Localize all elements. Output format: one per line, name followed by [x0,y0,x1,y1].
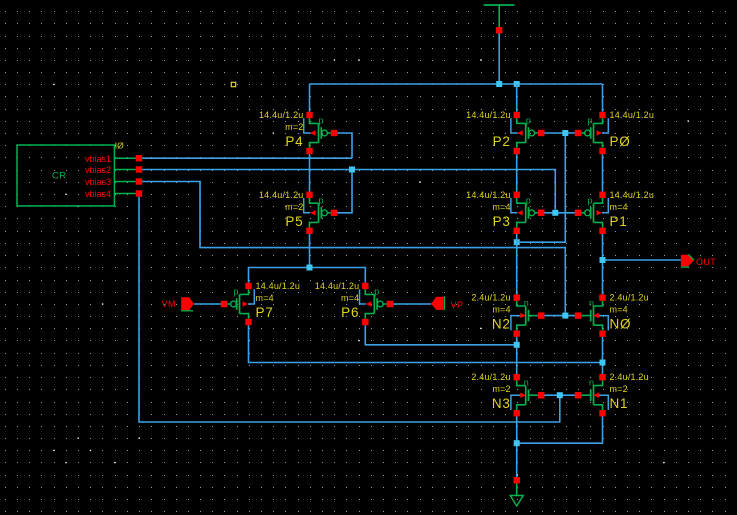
wire P2/P0 gate net [544,132,575,134]
wire P7 drain to N0 source [249,325,603,362]
bias block I0 (CR) [17,141,124,206]
svg-text:n: n [524,298,529,308]
svg-text:14.4u/1.2u: 14.4u/1.2u [256,281,301,291]
svg-text:m=2: m=2 [492,384,510,394]
wire P2 source riser [516,84,518,112]
svg-text:CR: CR [52,171,67,182]
svg-text:P3: P3 [493,214,511,229]
junction vbias3 / N2 N0 gates [562,313,568,319]
svg-text:vbias2: vbias2 [85,165,111,175]
nmos N0 [575,293,649,337]
wire vbias3 net [142,182,565,316]
port OUT [681,254,716,267]
svg-text:m=4: m=4 [341,293,359,303]
wire VP to P6 gate [392,303,431,305]
svg-text:14.4u/1.2u: 14.4u/1.2u [315,281,360,291]
svg-text:m=4: m=4 [610,202,628,212]
wire P6 drain to N2 source [365,325,516,345]
pmos P0 [575,110,654,154]
svg-text:m=4: m=4 [492,202,510,212]
wire P5 drain drop [309,234,311,268]
svg-text:VP: VP [451,300,464,310]
svg-text:2.4u/1.2u: 2.4u/1.2u [610,372,649,382]
pmos P7 [221,281,300,325]
svg-text:N3: N3 [492,396,511,411]
svg-text:P2: P2 [493,134,511,149]
wire vbias4 net [139,197,560,422]
wire P0 drain to P1 source [602,154,604,191]
port VP [431,296,463,310]
junction P7 drain / N0 source [600,360,606,366]
vdd symbol [484,5,515,27]
svg-text:p: p [588,195,593,205]
svg-text:n: n [589,378,594,388]
svg-text:14.4u/1.2u: 14.4u/1.2u [610,190,655,200]
junction P6 drain / N2 source [514,342,520,348]
svg-text:P1: P1 [610,214,628,229]
pmos P4 [259,110,337,154]
pin vbias4 [85,189,142,199]
wire P4 drain to P5 source [309,154,311,191]
svg-text:p: p [526,195,531,205]
svg-text:m=2: m=2 [610,384,628,394]
wire N2/N0 gate net [544,315,575,317]
svg-text:2.4u/1.2u: 2.4u/1.2u [471,293,510,303]
wire N3 source to ground [516,416,518,477]
nmos N3 [471,372,544,416]
pmos P3 [466,190,544,234]
origin marker [231,82,235,86]
svg-text:14.4u/1.2u: 14.4u/1.2u [259,110,304,120]
svg-text:p: p [374,287,379,297]
svg-text:14.4u/1.2u: 14.4u/1.2u [466,190,511,200]
wire tail net to diff pair sources [249,268,366,283]
pmos P6 [315,281,393,325]
svg-text:m=4: m=4 [492,305,510,315]
pmos P1 [575,190,654,234]
svg-text:n: n [524,378,529,388]
junction vbias4 / N3 N1 gates [557,392,563,398]
wire P3/P1 gate net [544,212,575,214]
svg-text:m=2: m=2 [285,122,303,132]
wire N2 source to N3 drain [516,337,518,375]
pin vbias2 [85,165,142,175]
svg-text:PØ: PØ [610,134,631,149]
junction P3 drain diode tap [514,239,520,245]
svg-text:p: p [319,195,324,205]
svg-text:2.4u/1.2u: 2.4u/1.2u [610,293,649,303]
wire P2/P0 gate to P3 drain [520,133,565,242]
svg-text:P7: P7 [256,305,274,320]
svg-text:P4: P4 [285,134,303,149]
junction P2/P0 gate [562,130,568,136]
wire P2 drain to P3 source [516,154,518,191]
wire N1 source return [517,416,603,443]
wire P1 drain to N0 drain [602,234,604,294]
svg-text:P6: P6 [341,305,359,320]
svg-text:N2: N2 [492,317,511,332]
junction N3/N1 sources [514,440,520,446]
wire vdd rail [310,83,603,85]
svg-text:NØ: NØ [610,317,632,332]
svg-text:N1: N1 [610,396,629,411]
svg-text:n: n [589,298,594,308]
junction N0 drain / OUT [600,257,606,263]
svg-text:vbias1: vbias1 [85,154,111,164]
wire vbias2 net [142,170,555,210]
svg-text:p: p [588,116,593,126]
wire P5 gate tap [337,170,352,213]
vdd pin [496,27,502,33]
junction vdd rail / P2 source [514,81,520,87]
svg-text:OUT: OUT [696,257,716,267]
wire vbias1 net [142,157,352,159]
wire VM to P7 gate [194,303,221,305]
svg-text:VM: VM [162,299,177,309]
svg-text:vbias3: vbias3 [85,177,111,187]
wire P4 gate tap [337,133,352,158]
svg-text:14.4u/1.2u: 14.4u/1.2u [610,110,655,120]
junction vdd rail / stem [496,81,502,87]
junction vbias2 / P5 gate [349,167,355,173]
pmos P2 [466,110,544,154]
svg-text:vbias4: vbias4 [85,189,111,199]
pin vbias1 [85,154,142,164]
wire P4 source riser [309,84,311,112]
nmos N2 [471,293,544,337]
ground symbol [510,484,523,507]
pin vbias3 [85,177,142,187]
gnd pin [514,477,520,483]
pmos P5 [259,190,337,234]
svg-text:p: p [526,116,531,126]
svg-text:14.4u/1.2u: 14.4u/1.2u [466,110,511,120]
port VM [162,297,194,311]
wire P0 source riser [602,84,604,112]
junction P5 drain / tail net [307,265,313,271]
wire N3/N1 gate net [544,394,575,396]
wire OUT net [603,259,681,261]
svg-text:IØ: IØ [115,141,124,151]
svg-text:P5: P5 [285,214,303,229]
wire P3 drain to N2 drain [516,234,518,294]
junction vbias2 / P3 P1 gates [552,210,558,216]
svg-text:m=2: m=2 [285,202,303,212]
wire vdd stem [498,34,500,85]
svg-text:m=4: m=4 [256,293,274,303]
wire N0 source to N1 drain [602,337,604,375]
svg-text:2.4u/1.2u: 2.4u/1.2u [471,372,510,382]
svg-text:p: p [234,287,239,297]
svg-text:m=4: m=4 [610,305,628,315]
svg-text:p: p [319,116,324,126]
svg-text:14.4u/1.2u: 14.4u/1.2u [259,190,304,200]
nmos N1 [575,372,649,416]
